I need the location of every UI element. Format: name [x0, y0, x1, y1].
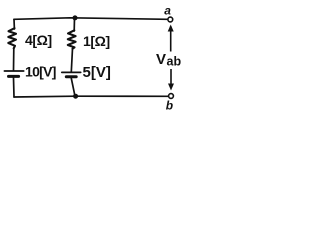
wire middle branch lower [71, 78, 75, 96]
Vab arrow upper [168, 25, 174, 52]
junction node top [73, 15, 78, 20]
wire left branch middle [13, 48, 15, 70]
svg-text:4[Ω]: 4[Ω] [25, 32, 52, 48]
battery V1 long plate [4, 70, 23, 72]
terminal a [168, 17, 173, 22]
battery V2 long plate [62, 71, 81, 73]
wire left branch lower [13, 78, 16, 97]
junction node bottom [73, 94, 78, 99]
battery V2 short plate [66, 75, 76, 78]
wire bottom [14, 95, 169, 98]
battery V1 short plate [9, 75, 19, 78]
wire top [14, 18, 168, 20]
terminal b [169, 94, 174, 99]
svg-text:a: a [164, 4, 171, 18]
wire middle branch middle [71, 49, 72, 72]
svg-text:b: b [166, 99, 173, 113]
resistor R2 [68, 30, 76, 49]
svg-text:1[Ω]: 1[Ω] [83, 33, 110, 49]
wire left branch upper [13, 19, 15, 29]
wire middle branch upper [73, 18, 75, 31]
svg-text:10[V]: 10[V] [25, 63, 56, 79]
Vab arrow lower [168, 69, 174, 91]
svg-text:5[V]: 5[V] [83, 64, 111, 81]
svg-text:Vab: Vab [156, 51, 181, 69]
resistor R1 [8, 28, 16, 48]
